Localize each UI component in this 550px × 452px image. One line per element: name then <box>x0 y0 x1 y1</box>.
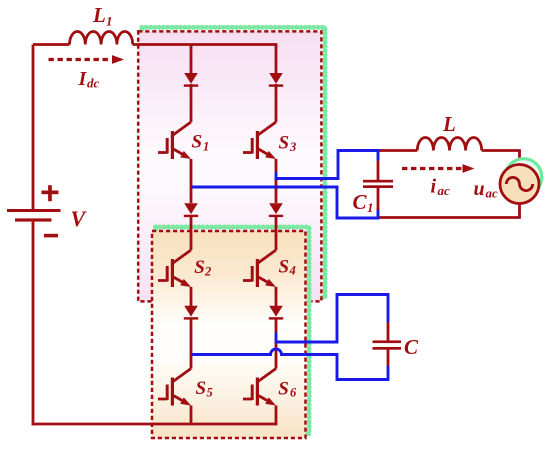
dashed arrow I_dc <box>49 58 112 61</box>
transistor S3 <box>243 122 276 159</box>
green shadow border of upper bridge box <box>142 27 325 297</box>
capacitor C plates <box>373 340 402 343</box>
capacitor C1 red vertical top segment <box>377 161 380 181</box>
capacitor C red vertical bottom segment <box>387 350 390 367</box>
svg-text:4: 4 <box>289 264 296 278</box>
svg-text:3: 3 <box>289 140 296 154</box>
wire: red top line from C1 box to AC source corner <box>378 149 417 152</box>
dashed arrow i_ac <box>402 167 462 170</box>
svg-text:1: 1 <box>367 200 374 215</box>
inductor L1 <box>70 31 133 44</box>
svg-text:6: 6 <box>290 386 297 400</box>
capacitor C1 red vertical bottom segment <box>377 188 380 210</box>
transistor S1 <box>158 122 191 159</box>
battery minus sign <box>44 234 58 238</box>
svg-text:ac: ac <box>486 186 499 201</box>
battery long plate <box>7 209 61 212</box>
leg A wire segments <box>190 45 193 425</box>
transistor S4 <box>243 250 276 287</box>
svg-text:2: 2 <box>204 265 211 279</box>
diode leg B mid <box>269 203 283 217</box>
wire: bottom rail <box>32 423 278 426</box>
wire: left vertical from rail to battery + <box>32 45 35 210</box>
transistor S2 <box>158 250 191 287</box>
wire: top line continues to corner and down to AC source <box>482 151 520 165</box>
svg-text:S: S <box>279 257 290 278</box>
wire: top rail from battery through L1 to legs <box>33 43 70 46</box>
green glow behind AC source <box>505 159 542 196</box>
diode leg A mid <box>184 203 198 217</box>
diode leg B top <box>269 73 283 87</box>
blue wire lower: from S4 junction to C box loop, with hop over leg B <box>276 295 388 343</box>
inductor L <box>417 137 481 150</box>
svg-text:S: S <box>278 378 289 399</box>
lower bridge box (orange, dashed red) <box>152 231 306 438</box>
diode leg A low <box>184 306 198 320</box>
svg-text:C: C <box>353 190 368 214</box>
svg-text:dc: dc <box>87 76 100 91</box>
svg-text:C: C <box>404 335 419 359</box>
AC source u_ac <box>500 165 539 204</box>
battery V: plus sign <box>42 191 59 195</box>
wire: from AC source bottom to lower line back to C1 <box>378 203 520 217</box>
capacitor C1 plates <box>363 180 393 183</box>
svg-text:u: u <box>474 178 485 200</box>
sine wave inside AC source <box>506 177 532 190</box>
svg-text:S: S <box>194 257 205 278</box>
svg-text:S: S <box>279 132 290 153</box>
svg-text:L: L <box>442 112 456 136</box>
blue wire lower: from S2-S5 junction hopping leg B to C box bottom loop <box>191 349 388 380</box>
green shadow border of lower bridge box <box>156 227 310 434</box>
svg-text:I: I <box>78 68 88 90</box>
blue wire upper: from S1 emitter junction to C1 box bottom loop <box>191 187 378 218</box>
svg-text:5: 5 <box>207 386 213 400</box>
svg-text:L: L <box>92 3 106 27</box>
svg-text:S: S <box>192 132 203 153</box>
wire: left vertical from battery - to bottom rail <box>32 222 35 426</box>
transistor S6 <box>243 369 276 406</box>
transistor S5 <box>158 369 191 406</box>
blue wire upper: from S3 emitter junction to C1 box top loop <box>276 151 378 179</box>
diode leg A top <box>184 73 198 87</box>
upper bridge box (pink, dashed red) <box>138 31 321 301</box>
svg-text:1: 1 <box>106 14 113 29</box>
svg-text:1: 1 <box>203 140 209 154</box>
svg-text:S: S <box>196 378 207 399</box>
leg B wire segments <box>275 45 278 425</box>
capacitor C red vertical top segment <box>387 322 390 341</box>
battery short plate <box>15 218 52 221</box>
wire: rail continues into box to right leg <box>133 43 278 46</box>
svg-text:i: i <box>431 176 437 198</box>
svg-text:V: V <box>71 206 88 231</box>
svg-text:ac: ac <box>438 183 451 198</box>
diode leg B low <box>269 306 283 320</box>
